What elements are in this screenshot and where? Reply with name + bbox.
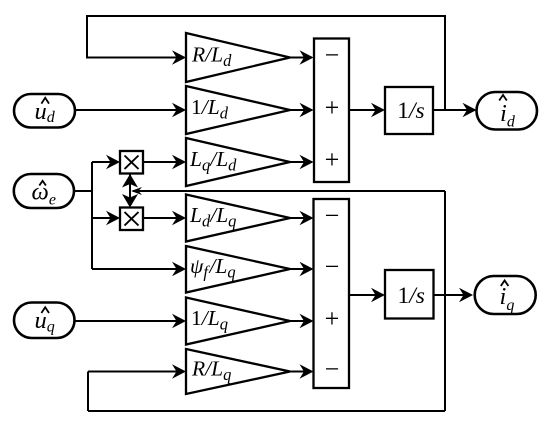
gain R/Ld triangle — [186, 33, 290, 82]
svg-text:1/s: 1/s — [397, 98, 424, 124]
integrator 1/s d-axis — [385, 87, 433, 134]
svg-text:+: + — [325, 145, 340, 174]
arrowhead mult1 into Lq/Ld — [172, 155, 186, 169]
integrator 1/s q-axis — [385, 270, 434, 319]
arrowhead sum2 into integrator2 — [371, 288, 385, 302]
hat over i_q — [501, 281, 509, 287]
arrowhead omega into mult2 — [106, 211, 120, 225]
wire integrator1 to id — [433, 109, 475, 111]
arrowhead into iq port — [459, 288, 473, 302]
arrowhead R/Lq into sum2 — [300, 364, 314, 378]
arrowhead omega into psi/Lq — [172, 262, 186, 276]
arrowhead mult2 into Ld/Lq — [172, 211, 186, 225]
arrowhead left into junction — [131, 187, 142, 195]
arrowhead Ld/Lq into sum2 — [300, 211, 314, 225]
arrowhead into R/Lq — [172, 364, 186, 378]
wire Lq/Ld to sum1 — [290, 161, 312, 163]
sum block S1 — [314, 39, 349, 183]
multiplier M2 box — [120, 208, 143, 231]
wire omega stub — [74, 190, 92, 192]
gain psi_f/Lq triangle — [186, 246, 290, 293]
multiplier M1 cross — [125, 156, 139, 170]
arrowhead into R/Ld — [172, 50, 186, 64]
sum block S2 — [314, 199, 350, 388]
svg-text:−: − — [325, 201, 340, 230]
arrowhead into id port — [463, 103, 477, 117]
wire iq feedback vertical — [444, 191, 446, 411]
wire id feedback top loop — [87, 16, 445, 110]
wire 1/Lq to sum2 — [290, 320, 312, 322]
wire u_d to 1/Ld — [75, 109, 184, 111]
wire integrator2 to iq — [434, 294, 472, 296]
output port iq oval — [475, 276, 536, 314]
arrowhead psi/Lq into sum2 — [300, 262, 314, 276]
wire sum1 to integrator1 — [349, 109, 383, 111]
gain Ld/Lq triangle — [186, 195, 290, 242]
gain 1/Ld triangle — [186, 86, 290, 134]
svg-text:+: + — [325, 304, 340, 333]
wire iq feedback to R/Lq — [88, 371, 184, 373]
wire iq feedback left vertical — [87, 372, 89, 412]
wire u_q to 1/Lq — [75, 320, 185, 322]
output port id oval — [477, 92, 538, 130]
gain R/Lq triangle — [186, 349, 290, 394]
arrowhead up into mult1 — [122, 174, 138, 188]
gain Lq/Ld triangle — [186, 138, 290, 186]
arrowhead Lq/Ld into sum1 — [300, 155, 314, 169]
arrowhead R/Ld into sum1 — [300, 50, 314, 64]
wire omega vertical branch — [91, 162, 93, 269]
arrowhead into 1/Ld — [172, 103, 186, 117]
wire sum2 to integrator2 — [349, 294, 383, 296]
input port omega_e oval — [14, 174, 74, 208]
hat over u_d — [41, 98, 49, 104]
arrowhead 1/Lq into sum2 — [300, 314, 314, 328]
wire omega to mult2 — [92, 217, 118, 219]
arrowhead u_q into 1/Lq — [172, 314, 186, 328]
wire Ld/Lq to sum2 — [290, 217, 312, 219]
wire between multipliers — [129, 174, 131, 206]
wire R/Ld to sum1 — [290, 57, 312, 59]
input port u_q oval — [14, 303, 75, 339]
wire R/Lq to sum2 — [290, 371, 312, 373]
input port u_d oval — [14, 94, 75, 128]
gain 1/Lq triangle — [186, 298, 290, 345]
wire iq feedback bottom — [88, 410, 445, 412]
svg-text:−: − — [325, 252, 340, 281]
arrowhead down into mult2 — [122, 194, 138, 208]
hat over u_q — [41, 307, 49, 313]
svg-text:+: + — [325, 93, 340, 122]
wire psi/Lq to sum2 — [290, 268, 312, 270]
svg-text:−: − — [325, 41, 340, 70]
arrowhead 1/Ld into sum1 — [300, 103, 314, 117]
svg-text:1/s: 1/s — [398, 283, 425, 309]
arrowhead omega into mult1 — [106, 155, 120, 169]
hat over i_d — [499, 95, 507, 101]
wire mult1 to Lq/Ld — [143, 161, 184, 163]
hat over omega_e — [39, 181, 46, 186]
svg-text:−: − — [325, 355, 340, 384]
wire omega to mult1 — [92, 161, 118, 163]
multiplier M1 box — [120, 151, 143, 174]
wire omega to psi/Lq — [92, 268, 184, 270]
wire 1/Ld to sum1 — [290, 109, 312, 111]
wire iq feedback horizontal to multiplier junction — [133, 190, 445, 192]
multiplier M2 cross — [125, 212, 139, 226]
wire mult2 to Ld/Lq — [143, 217, 184, 219]
arrowhead sum1 into integrator1 — [371, 103, 385, 117]
